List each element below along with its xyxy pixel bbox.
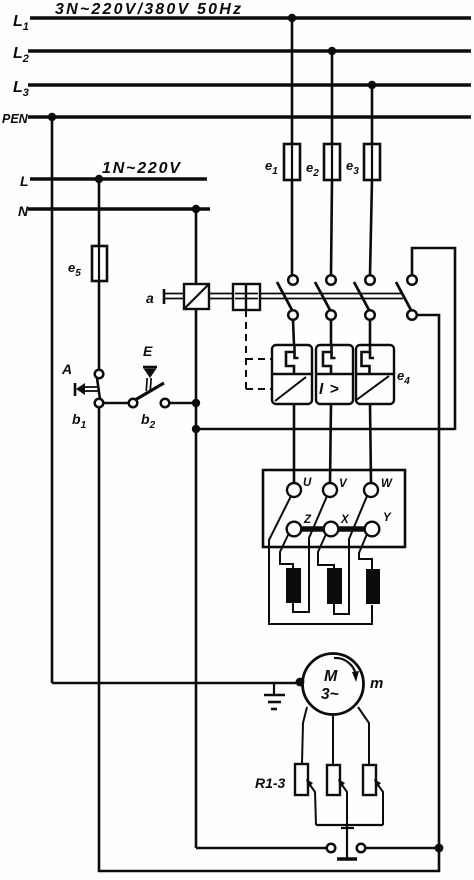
- wire coil a bottom to node K1: [195, 309, 198, 403]
- junction on L1: [288, 14, 296, 22]
- junction on PEN: [48, 113, 56, 121]
- wire bottom return: [100, 848, 439, 871]
- net L2 bus line: [28, 49, 471, 53]
- svg-text:m: m: [370, 675, 383, 692]
- svg-text:3~: 3~: [321, 686, 339, 703]
- wire resistor common: [316, 824, 383, 826]
- coil a linkage end tick: [163, 289, 166, 304]
- wire b2 to node K1: [169, 402, 196, 405]
- wire V to winding1 bottom: [293, 496, 327, 612]
- wire e4 to terminal W: [370, 404, 371, 483]
- wire rotor lead 3: [358, 707, 369, 765]
- resistor R1 tap arrow: [306, 779, 316, 825]
- junction bottom right: [435, 844, 444, 853]
- svg-text:V: V: [339, 478, 348, 490]
- resistor R2: [327, 765, 340, 795]
- terminal W: [364, 483, 378, 497]
- wire star point down: [346, 825, 348, 858]
- wire node K2 to right rail: [196, 428, 455, 431]
- motor M: [303, 654, 364, 715]
- terminal X: [324, 522, 339, 537]
- terminal V: [323, 483, 337, 497]
- junction on N: [192, 205, 200, 213]
- wire L1 drop to fuse e1: [291, 18, 294, 144]
- resistor R1: [295, 764, 308, 795]
- wire X to winding2 top: [318, 534, 334, 568]
- overload relay e4: [272, 345, 394, 404]
- winding 2: [327, 568, 342, 604]
- svg-text:E: E: [143, 343, 153, 359]
- wire rotor lead 1: [302, 707, 307, 764]
- contactor main contact 3: [354, 275, 375, 320]
- wire b1 bottom down rail: [99, 407, 100, 871]
- svg-text:Y: Y: [383, 512, 392, 524]
- wire e4 to terminal U: [293, 404, 296, 483]
- junction on L3: [368, 81, 376, 89]
- wire W to winding2 bottom: [334, 496, 367, 614]
- net L line: [30, 177, 207, 181]
- motor arc accent: [334, 658, 359, 682]
- mechanical linkage bar: [209, 293, 403, 295]
- svg-text:I >: I >: [319, 381, 340, 398]
- wire contact3 to e4: [369, 320, 372, 345]
- fuse e1: [284, 144, 300, 180]
- node K2 junction: [192, 425, 200, 433]
- winding 3: [366, 569, 380, 604]
- wire L to fuse e5: [98, 179, 101, 246]
- ground symbol: [264, 683, 285, 709]
- switch b1: [95, 370, 104, 408]
- svg-text:N: N: [18, 203, 29, 219]
- svg-text:M: M: [324, 668, 338, 685]
- wire fuse e2 to contact 2: [331, 180, 332, 275]
- wire contact1 to e4: [293, 320, 294, 345]
- actuator A arrow: [75, 383, 98, 396]
- svg-text:Z: Z: [303, 514, 312, 526]
- pushbutton E actuator: [143, 367, 157, 391]
- contactor aux contact: [396, 275, 417, 320]
- resistor R3 tap arrow: [374, 779, 383, 825]
- junction motor frame: [296, 678, 305, 687]
- wire U to winding3 bottom: [269, 496, 372, 624]
- wire L3 drop to fuse e3: [371, 85, 374, 144]
- terminal Z: [287, 522, 302, 537]
- net L1 bus line: [30, 16, 471, 20]
- svg-text:1N~220V: 1N~220V: [102, 160, 182, 177]
- wire fuse e5 to switch b1: [98, 281, 101, 370]
- wire N to coil a top: [195, 209, 198, 284]
- wire PEN rail to motor frame: [52, 682, 300, 685]
- terminal Y: [365, 522, 380, 537]
- rotor earth bar: [337, 857, 357, 861]
- trip linkage dashed: [246, 310, 272, 389]
- connector plug right: [357, 844, 366, 853]
- terminal U: [287, 483, 301, 497]
- mechanical linkage left: [164, 293, 184, 295]
- svg-text:3N~220V/380V 50Hz: 3N~220V/380V 50Hz: [55, 1, 243, 18]
- fuse e2: [324, 144, 340, 180]
- svg-text:W: W: [381, 478, 393, 490]
- star link Z-X: [301, 526, 324, 532]
- wire rotor return line: [196, 847, 327, 850]
- wire rotor lead 2: [332, 714, 334, 765]
- contactor main contact 2: [315, 275, 336, 320]
- svg-text:R1-3: R1-3: [255, 775, 286, 791]
- svg-text:a: a: [146, 290, 154, 306]
- svg-text:U: U: [303, 477, 312, 489]
- wire node K1 down rail: [195, 403, 198, 848]
- net PEN bus line: [28, 115, 471, 119]
- wire e4 to terminal V: [330, 404, 331, 483]
- wire aux bottom to lower rail: [417, 315, 439, 848]
- fuse e3: [364, 144, 380, 180]
- svg-text:A: A: [61, 361, 72, 377]
- winding 1: [286, 568, 301, 603]
- wire fuse e1 to contact 1: [291, 180, 294, 275]
- resistor R3: [363, 765, 376, 795]
- motor terminal box: [263, 470, 405, 547]
- wire fuse e3 to contact 3: [370, 180, 372, 275]
- svg-text:PEN: PEN: [2, 112, 29, 126]
- wire Y to winding3 top: [359, 534, 372, 569]
- switch b2: [129, 383, 170, 407]
- contactor coil a: [184, 284, 209, 309]
- wire contact2 to e4: [330, 320, 333, 345]
- fuse e5: [92, 246, 107, 281]
- wire b1 to b2: [103, 402, 129, 405]
- linkage block: [233, 284, 260, 310]
- net L3 bus line: [28, 83, 471, 87]
- junction on L: [95, 175, 103, 183]
- wire Z to winding1 top: [280, 533, 293, 568]
- wire PEN drop left rail: [51, 117, 54, 683]
- contactor main contact 1: [277, 275, 298, 320]
- svg-text:X: X: [340, 514, 350, 526]
- node K1 junction: [192, 399, 200, 407]
- svg-text:L: L: [20, 173, 29, 189]
- wire L2 drop to fuse e2: [331, 51, 334, 144]
- star link X-Y: [338, 526, 365, 532]
- junction on L2: [328, 47, 336, 55]
- wire aux top to right rail: [412, 248, 455, 430]
- net N line: [28, 207, 210, 211]
- resistor R2 tap arrow: [338, 779, 347, 825]
- tick on star lead: [341, 827, 354, 829]
- wire plug to junction: [365, 847, 439, 850]
- connector plug left: [327, 844, 336, 853]
